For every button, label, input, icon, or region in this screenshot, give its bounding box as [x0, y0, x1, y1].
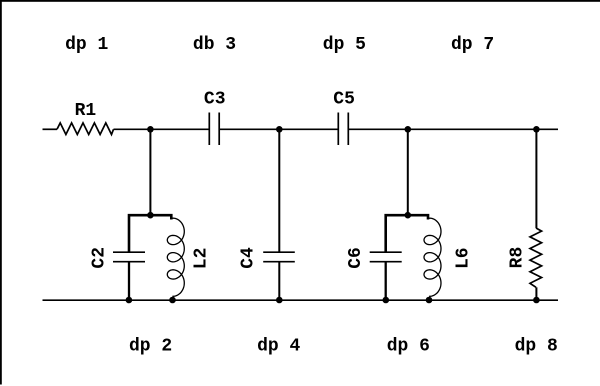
svg-text:L2: L2 [191, 248, 211, 270]
svg-text:R1: R1 [75, 101, 97, 121]
svg-text:dp 2: dp 2 [129, 336, 172, 356]
svg-text:dp 7: dp 7 [451, 35, 494, 55]
svg-text:db 3: db 3 [193, 35, 236, 55]
svg-text:R8: R8 [507, 247, 527, 269]
svg-text:C6: C6 [346, 247, 366, 269]
svg-text:dp 6: dp 6 [387, 336, 430, 356]
svg-text:dp 5: dp 5 [323, 35, 366, 55]
svg-text:dp 4: dp 4 [257, 336, 300, 356]
svg-text:dp 1: dp 1 [65, 35, 108, 55]
svg-text:L6: L6 [454, 247, 474, 269]
svg-text:C5: C5 [333, 90, 355, 110]
svg-text:C4: C4 [239, 247, 259, 269]
svg-text:C3: C3 [204, 90, 226, 110]
svg-text:dp 8: dp 8 [515, 336, 558, 356]
svg-text:C2: C2 [89, 247, 109, 269]
